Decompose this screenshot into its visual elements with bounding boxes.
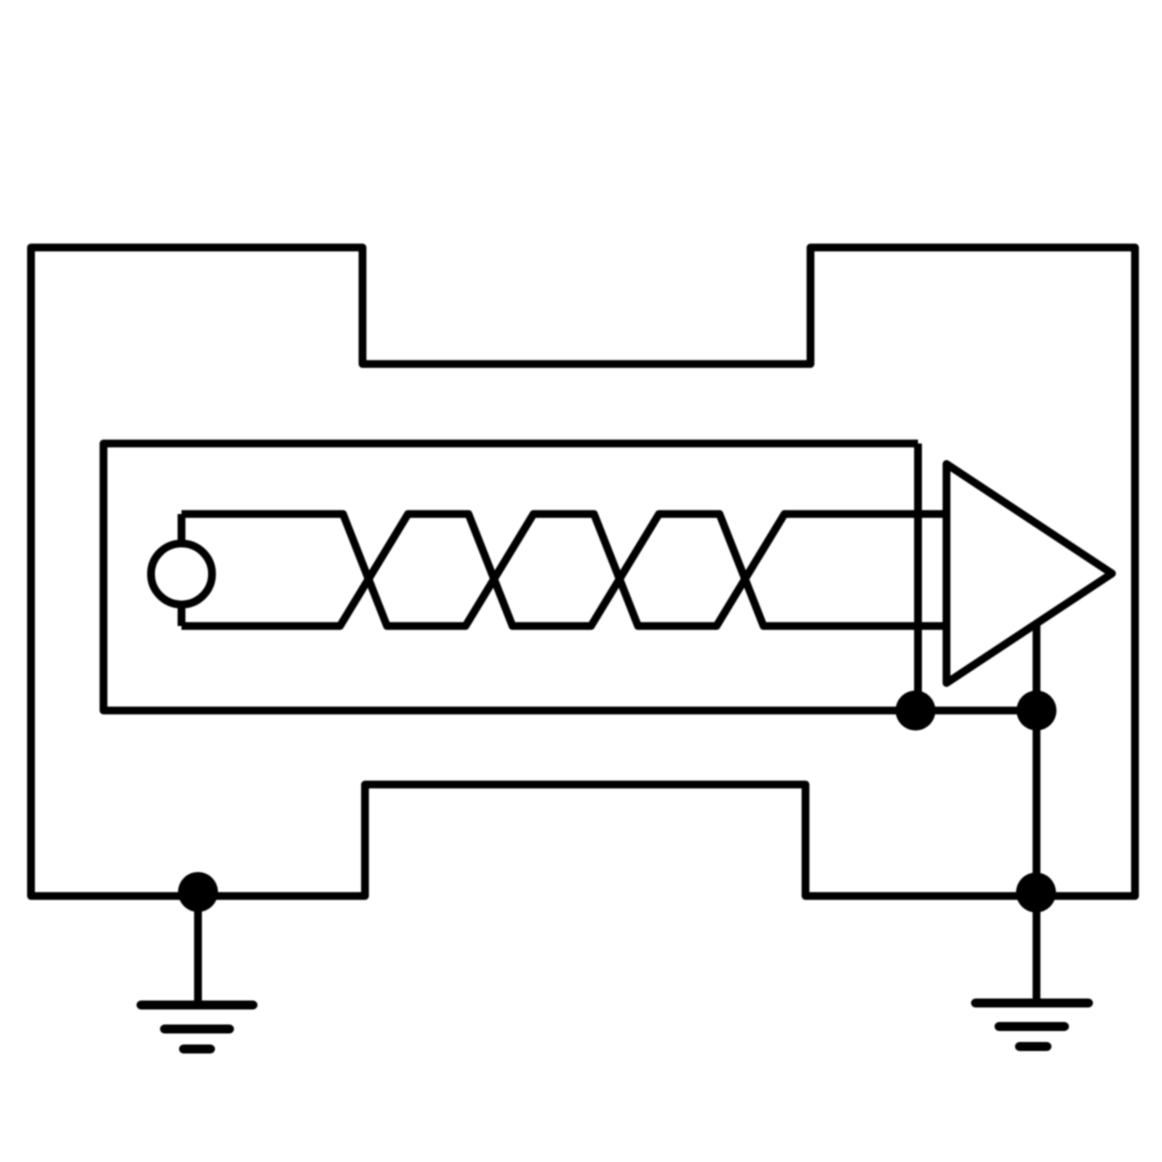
source circle V1 — [151, 544, 212, 605]
inner shield box — [104, 444, 919, 711]
op-amp U1 buffer triangle — [947, 464, 1113, 683]
wire twisted pair conductor B — [182, 514, 947, 626]
node junction dot: inner shield to common — [896, 691, 936, 731]
wire amp output down to bottom shield — [1033, 622, 1041, 896]
ground symbol left — [141, 1001, 253, 1010]
wire left ground stem — [194, 892, 202, 1005]
wire twisted pair conductor A — [182, 514, 947, 626]
wire right ground stem — [1033, 896, 1041, 1003]
outer shield enclosure — [31, 248, 1135, 897]
wire shield-bottom to amp common — [916, 707, 1037, 715]
node junction dot: left shield ground — [178, 872, 218, 912]
ground symbol right — [976, 999, 1089, 1008]
node junction dot: right shield ground — [1016, 873, 1056, 913]
wire source bottom stub — [178, 605, 186, 627]
wire source top stub — [178, 514, 186, 544]
node junction dot: amp output to common — [1017, 691, 1057, 731]
